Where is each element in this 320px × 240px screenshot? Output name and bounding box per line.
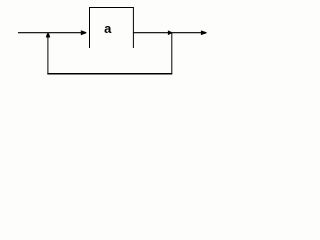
svg-text:a: a [104,21,112,36]
